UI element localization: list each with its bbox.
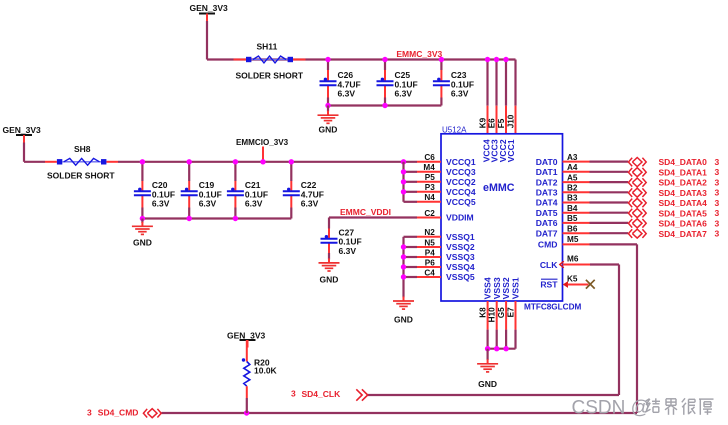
svg-text:DAT6: DAT6 [536, 218, 558, 228]
svg-text:GEN_3V3: GEN_3V3 [227, 330, 266, 340]
svg-text:N5: N5 [424, 238, 435, 247]
svg-text:VSSQ4: VSSQ4 [446, 262, 475, 272]
svg-text:VCCQ2: VCCQ2 [446, 177, 476, 187]
svg-text:DAT3: DAT3 [536, 188, 558, 198]
svg-text:SD4_DATA3: SD4_DATA3 [659, 188, 708, 198]
svg-text:DAT0: DAT0 [536, 157, 558, 167]
svg-text:A3: A3 [567, 153, 578, 162]
svg-text:3: 3 [715, 218, 720, 228]
svg-text:SH11: SH11 [257, 41, 278, 51]
svg-text:VCCQ3: VCCQ3 [446, 167, 476, 177]
svg-text:VCCQ5: VCCQ5 [446, 197, 476, 207]
svg-text:B2: B2 [567, 184, 578, 193]
svg-text:B5: B5 [567, 214, 578, 223]
svg-text:J10: J10 [506, 114, 515, 128]
svg-text:H10: H10 [488, 307, 497, 322]
svg-text:6.3V: 6.3V [245, 199, 263, 209]
svg-text:GND: GND [320, 274, 339, 284]
svg-text:CSDN @: CSDN @ [572, 398, 650, 419]
svg-text:M5: M5 [567, 235, 579, 244]
svg-text:B3: B3 [567, 194, 578, 203]
svg-text:SD4_DATA4: SD4_DATA4 [659, 198, 708, 208]
svg-text:3: 3 [715, 167, 720, 177]
svg-text:SD4_DATA7: SD4_DATA7 [659, 229, 708, 239]
svg-text:3: 3 [715, 157, 720, 167]
svg-text:K9: K9 [478, 117, 487, 128]
svg-text:DAT1: DAT1 [536, 167, 558, 177]
svg-text:F5: F5 [497, 118, 506, 128]
svg-text:DAT2: DAT2 [536, 177, 558, 187]
svg-text:SOLDER SHORT: SOLDER SHORT [236, 70, 304, 80]
svg-text:GND: GND [133, 238, 152, 248]
svg-text:B6: B6 [567, 224, 578, 233]
svg-text:6.3V: 6.3V [339, 246, 357, 256]
svg-text:6.3V: 6.3V [301, 199, 319, 209]
svg-text:A4: A4 [567, 163, 578, 172]
svg-text:B4: B4 [567, 204, 578, 213]
svg-text:eMMC: eMMC [483, 182, 515, 194]
svg-text:EMMC_VDDI: EMMC_VDDI [340, 207, 391, 217]
svg-text:3: 3 [715, 229, 720, 239]
svg-text:K8: K8 [479, 307, 488, 318]
svg-text:6.3V: 6.3V [338, 89, 356, 99]
svg-text:SOLDER SHORT: SOLDER SHORT [47, 170, 115, 180]
svg-text:P5: P5 [425, 173, 435, 182]
svg-text:RST: RST [540, 280, 558, 290]
svg-text:GND: GND [319, 124, 338, 134]
svg-text:DAT5: DAT5 [536, 208, 558, 218]
svg-text:E7: E7 [506, 307, 515, 317]
svg-text:DAT4: DAT4 [536, 198, 558, 208]
svg-text:6.3V: 6.3V [199, 199, 217, 209]
svg-text:EMMC_3V3: EMMC_3V3 [396, 49, 442, 59]
svg-text:GEN_3V3: GEN_3V3 [190, 3, 229, 13]
svg-text:CMD: CMD [538, 240, 558, 250]
svg-text:3: 3 [715, 208, 720, 218]
svg-text:3: 3 [715, 198, 720, 208]
svg-text:A5: A5 [567, 173, 578, 182]
svg-text:N2: N2 [424, 228, 435, 237]
svg-text:6.3V: 6.3V [451, 89, 469, 99]
svg-text:SD4_DATA1: SD4_DATA1 [659, 167, 708, 177]
svg-text:SD4_DATA0: SD4_DATA0 [659, 157, 708, 167]
svg-text:6.3V: 6.3V [152, 199, 170, 209]
svg-text:CLK: CLK [540, 260, 558, 270]
svg-text:VSSQ3: VSSQ3 [446, 252, 475, 262]
svg-text:GND: GND [478, 379, 497, 389]
svg-text:G5: G5 [497, 307, 506, 318]
svg-text:3: 3 [87, 407, 92, 417]
svg-text:P6: P6 [425, 258, 435, 267]
svg-text:N4: N4 [424, 193, 435, 202]
svg-text:SD4_CMD: SD4_CMD [98, 407, 139, 417]
svg-text:EMMCIO_3V3: EMMCIO_3V3 [236, 138, 289, 147]
svg-text:K5: K5 [567, 275, 578, 284]
svg-text:VCCQ4: VCCQ4 [446, 187, 476, 197]
svg-text:6.3V: 6.3V [395, 89, 413, 99]
svg-text:C4: C4 [424, 268, 435, 277]
svg-text:VDDIM: VDDIM [446, 213, 474, 223]
svg-text:SD4_DATA5: SD4_DATA5 [659, 208, 708, 218]
svg-text:VSSQ2: VSSQ2 [446, 242, 475, 252]
svg-text:C2: C2 [424, 209, 435, 218]
svg-text:P4: P4 [425, 248, 435, 257]
svg-text:U512A: U512A [442, 125, 467, 134]
svg-text:P3: P3 [425, 183, 435, 192]
svg-text:GND: GND [394, 314, 413, 324]
svg-text:VSSQ1: VSSQ1 [446, 232, 475, 242]
svg-text:DAT7: DAT7 [536, 228, 558, 238]
svg-text:E6: E6 [487, 118, 496, 128]
svg-text:M6: M6 [567, 255, 579, 264]
svg-text:SD4_DATA6: SD4_DATA6 [659, 219, 708, 229]
svg-text:MTFC8GLCDM: MTFC8GLCDM [524, 303, 581, 312]
svg-text:SD4_DATA2: SD4_DATA2 [659, 178, 708, 188]
svg-text:GEN_3V3: GEN_3V3 [3, 125, 42, 135]
svg-text:C6: C6 [424, 153, 435, 162]
svg-text:SD4_CLK: SD4_CLK [302, 389, 342, 399]
svg-text:M4: M4 [423, 163, 435, 172]
svg-text:SH8: SH8 [74, 144, 91, 154]
svg-text:VSSQ5: VSSQ5 [446, 272, 475, 282]
svg-text:VSS1: VSS1 [511, 277, 521, 299]
svg-text:3: 3 [291, 389, 296, 399]
svg-text:3: 3 [715, 188, 720, 198]
svg-text:VCCQ1: VCCQ1 [446, 157, 476, 167]
svg-text:10.0K: 10.0K [254, 365, 278, 375]
svg-text:VCC1: VCC1 [506, 139, 516, 162]
svg-text:3: 3 [715, 178, 720, 188]
